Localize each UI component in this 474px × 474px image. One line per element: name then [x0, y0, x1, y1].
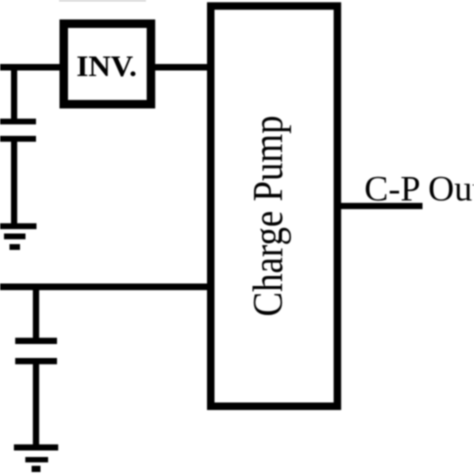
svg-text:C-P Out: C-P Out: [364, 168, 474, 208]
svg-text:Charge Pump: Charge Pump: [245, 116, 292, 317]
svg-text:INV.: INV.: [76, 51, 136, 83]
